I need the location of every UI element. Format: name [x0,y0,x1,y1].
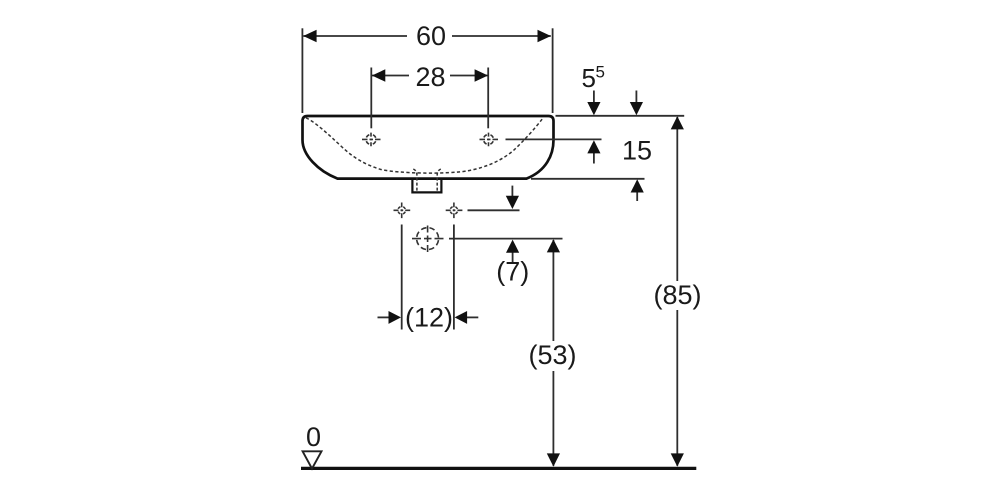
svg-text:0: 0 [306,422,321,452]
dimension 28 line [372,75,488,77]
svg-text:(85): (85) [653,280,701,310]
fixing hole left [394,203,411,219]
dimension 85 arrow bottom [671,453,684,466]
svg-text:5: 5 [582,63,596,93]
trap dashed sides [413,169,441,192]
dimension 15 arrow upper [635,91,637,104]
dimension 53 vertical line [552,240,554,466]
fixing hole right [446,203,463,219]
dimension 60 arrow left [303,30,316,43]
dimension 12 arrow left [378,316,391,318]
svg-text:28: 28 [415,62,445,92]
dimension 53 arrow bottom [547,453,560,466]
dimension 7 arrow upper [511,186,513,197]
dimension 85 arrow top [671,116,684,129]
level line fixing holes right extension [468,209,520,211]
basin outline [303,116,554,179]
dimension 60 line [303,35,551,37]
dimension 7 arrow lower [512,253,514,263]
dimension 12 extension line right [453,225,455,330]
siphon hole [412,226,444,253]
waste outlet trap [412,180,441,193]
svg-text:(53): (53) [528,340,576,370]
dimension 12 arrow right [466,316,478,318]
tap hole right [480,133,499,147]
datum triangle [303,451,322,468]
dimension 60 extension line right [552,28,554,113]
dimension 85 vertical line [676,117,678,466]
basin inner bowl dashed line [306,118,543,173]
svg-text:(12): (12) [405,303,453,333]
svg-text:15: 15 [622,136,652,166]
ground line [301,467,696,470]
level line C basin bottom right extension [531,178,645,180]
dimension 28 extension line left [370,68,372,129]
dimension 60 extension line left [301,28,303,113]
level line B tap holes right extension [506,138,602,140]
level line A basin top right extension [556,115,685,117]
level line siphon right extension [449,238,563,240]
dimension 28 arrow left [372,69,385,82]
svg-text:5: 5 [596,62,605,81]
dimension 53 arrow top [547,239,560,252]
dimension 12 extension line left [401,225,403,330]
dimension 5.5 arrow lower [593,153,595,164]
dimension 60 arrow right [538,30,551,43]
dimension 5.5 arrow upper [593,91,595,104]
tap hole left [362,133,381,147]
svg-text:(7): (7) [496,257,529,287]
svg-text:60: 60 [416,21,446,51]
dimension 28 extension line right [487,68,489,129]
dimension 28 arrow right [475,69,488,82]
dimension 15 arrow lower [636,192,638,201]
